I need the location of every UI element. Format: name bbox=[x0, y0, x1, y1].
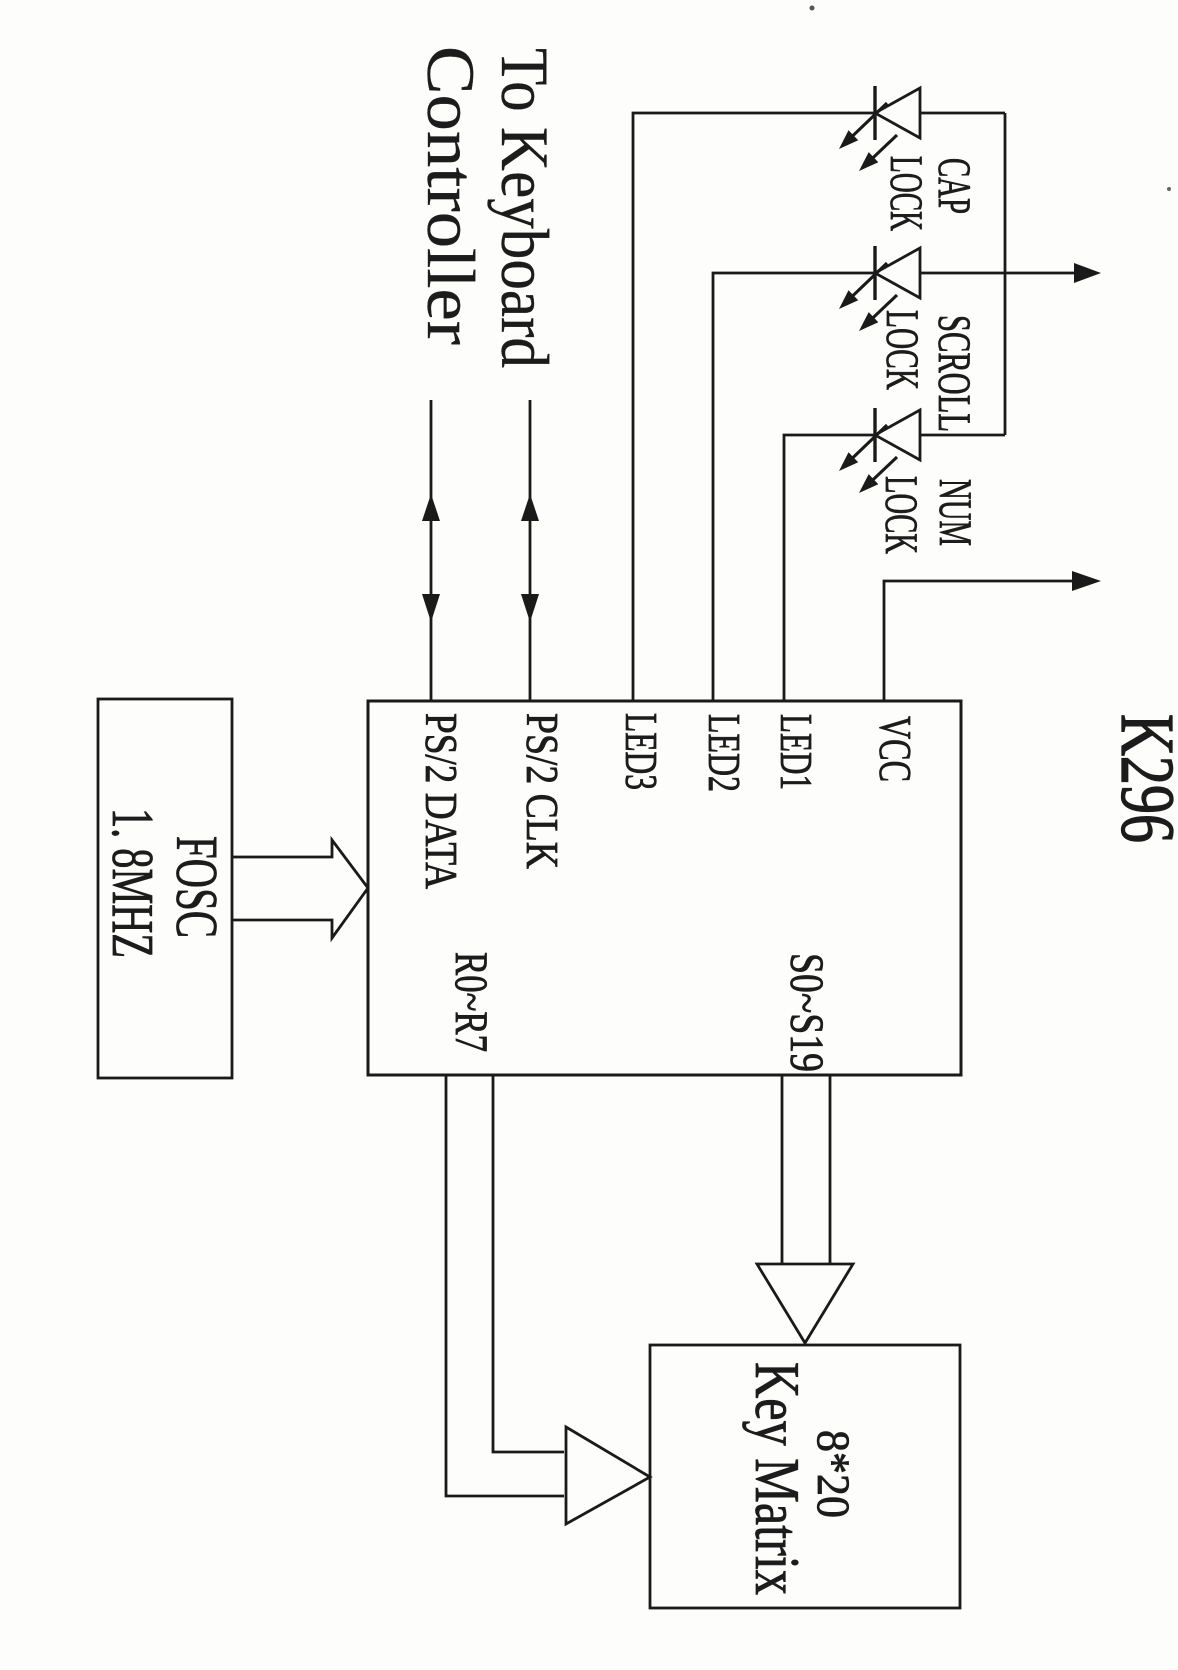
svg-text:LED1: LED1 bbox=[771, 714, 822, 790]
LED D2 emission arrow 2 bbox=[866, 295, 897, 324]
LED D3 cathode bar bbox=[873, 408, 876, 462]
svg-text:LOCK: LOCK bbox=[880, 156, 932, 231]
arrowhead left on PS/2 DATA bbox=[422, 494, 440, 521]
svg-text:LOCK: LOCK bbox=[875, 476, 927, 554]
svg-text:LED2: LED2 bbox=[699, 714, 750, 792]
svg-text:Key Matrix: Key Matrix bbox=[742, 1362, 812, 1595]
LED D1 emission arrow 2 bbox=[866, 135, 897, 164]
wire S0 bus line 1 bbox=[829, 1075, 832, 1264]
arrowhead left on PS/2 CLK bbox=[521, 494, 539, 521]
svg-text:S0~S19: S0~S19 bbox=[780, 953, 833, 1072]
LED D3 NUM LOCK triangle bbox=[875, 410, 920, 460]
svg-text:CAP: CAP bbox=[928, 158, 980, 214]
svg-text:K296: K296 bbox=[1105, 714, 1178, 843]
svg-text:Controller: Controller bbox=[413, 46, 489, 345]
svg-text:NUM: NUM bbox=[929, 479, 981, 546]
wire R0 bus line 2 bbox=[446, 1075, 564, 1496]
wire PS/2 CLK bbox=[529, 400, 532, 701]
LED D1 cathode bar bbox=[873, 86, 876, 140]
LED D2 SCROLL LOCK anode wire to arrow bbox=[920, 272, 1076, 275]
speck dot 2 bbox=[1167, 187, 1171, 191]
svg-text:R0~R7: R0~R7 bbox=[445, 952, 497, 1052]
hollow arrow S0~S19 to key matrix bbox=[757, 1264, 853, 1343]
speck dot 1 bbox=[810, 6, 815, 11]
LED D2 emission arrow 1 bbox=[846, 263, 887, 302]
LED D1 CAP LOCK triangle bbox=[875, 88, 920, 138]
arrowhead right on PS/2 CLK bbox=[521, 594, 539, 622]
key matrix box bbox=[650, 1345, 960, 1608]
LED D2 cathode bar bbox=[873, 246, 876, 300]
svg-text:To Keyboard: To Keyboard bbox=[487, 48, 563, 368]
wire LED2 pin to SCROLL LED cathode bbox=[713, 273, 875, 701]
wire LED1 pin to NUM LED cathode bbox=[784, 435, 875, 701]
wire PS/2 DATA bbox=[430, 400, 433, 701]
chip U1 K296 controller box bbox=[368, 701, 961, 1075]
arrowhead SCROLL up bbox=[1074, 263, 1101, 283]
LED D1 CAP LOCK anode wire bbox=[920, 112, 1005, 115]
wire VCC pin bbox=[884, 581, 1074, 701]
svg-text:8*20: 8*20 bbox=[807, 1430, 859, 1518]
svg-text:VCC: VCC bbox=[870, 716, 921, 782]
svg-text:LOCK: LOCK bbox=[876, 310, 928, 390]
arrowhead VCC up bbox=[1072, 571, 1101, 591]
wire LED3 pin to CAP LED cathode bbox=[633, 113, 875, 701]
LED D3 emission arrow 2 bbox=[866, 457, 897, 486]
LED D3 emission arrow 1 bbox=[846, 425, 887, 464]
hollow arrow R0~R7 to key matrix bbox=[566, 1427, 650, 1524]
svg-text:SCROLL: SCROLL bbox=[928, 315, 980, 432]
svg-text:FOSC: FOSC bbox=[164, 836, 230, 938]
svg-text:LED3: LED3 bbox=[616, 713, 667, 790]
svg-text:1. 8MHZ: 1. 8MHZ bbox=[100, 808, 166, 958]
hollow arrow FOSC to chip bbox=[232, 840, 368, 938]
svg-text:PS/2 DATA: PS/2 DATA bbox=[416, 713, 467, 889]
oscillator box FOSC bbox=[98, 699, 232, 1078]
arrowhead right on PS/2 DATA bbox=[422, 594, 440, 622]
LED D1 emission arrow 1 bbox=[846, 103, 887, 142]
LED D3 NUM LOCK anode wire bbox=[919, 434, 1005, 437]
wire S0 bus line 2 bbox=[781, 1075, 784, 1264]
svg-text:PS/2 CLK: PS/2 CLK bbox=[517, 713, 568, 869]
anode rail wire bbox=[1004, 113, 1007, 435]
LED D2 SCROLL LOCK triangle bbox=[875, 248, 920, 298]
wire R0 bus line 1 bbox=[493, 1075, 564, 1452]
